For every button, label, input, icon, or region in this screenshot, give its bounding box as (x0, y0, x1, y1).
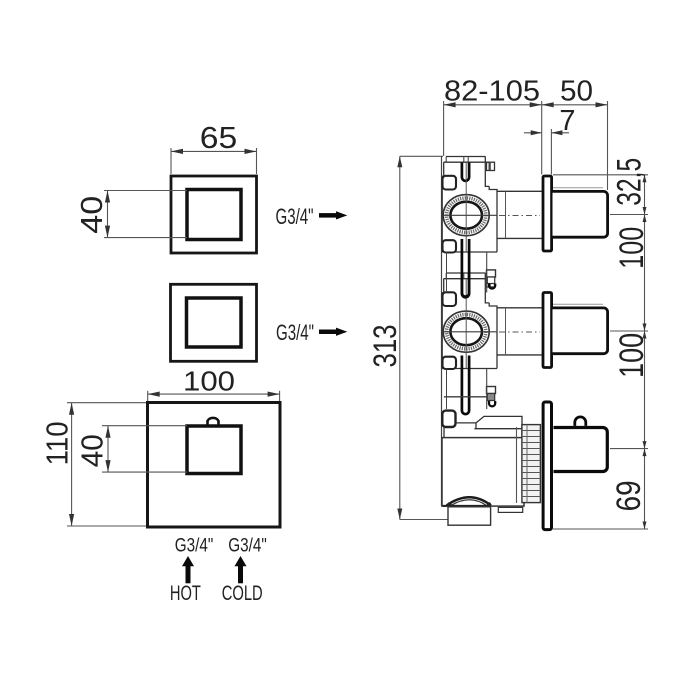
svg-text:100: 100 (613, 227, 651, 269)
svg-text:313: 313 (367, 325, 403, 368)
svg-text:G3/4": G3/4" (276, 204, 314, 229)
svg-text:HOT: HOT (170, 582, 201, 605)
svg-text:G3/4": G3/4" (276, 320, 314, 345)
svg-text:82-105: 82-105 (444, 76, 540, 108)
svg-text:110: 110 (40, 421, 75, 465)
svg-text:100: 100 (613, 333, 651, 378)
svg-text:69: 69 (610, 480, 648, 511)
svg-text:40: 40 (74, 196, 109, 234)
svg-text:G3/4": G3/4" (228, 535, 267, 557)
svg-text:32,5: 32,5 (611, 158, 649, 206)
svg-text:G3/4": G3/4" (175, 535, 214, 557)
svg-text:100: 100 (183, 366, 235, 397)
svg-text:COLD: COLD (222, 582, 263, 605)
svg-text:65: 65 (200, 120, 238, 155)
svg-text:40: 40 (75, 434, 110, 467)
svg-text:50: 50 (560, 76, 593, 108)
